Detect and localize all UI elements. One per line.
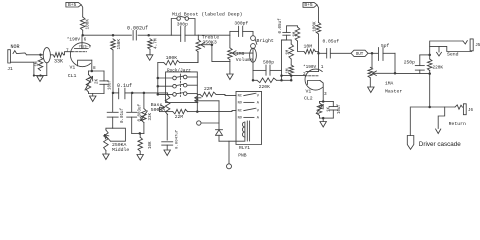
resistor cathode V1a variable xyxy=(88,71,90,75)
wire treble bottom to 100K xyxy=(197,52,199,63)
svg-text:33K: 33K xyxy=(54,58,63,64)
wire to return jack xyxy=(429,74,431,107)
ground middle xyxy=(105,151,107,155)
wire send tip xyxy=(430,41,463,55)
svg-text:PNB: PNB xyxy=(238,153,247,159)
svg-text:RLY1: RLY1 xyxy=(239,145,250,151)
net flag OUT xyxy=(351,50,368,56)
svg-text:22M: 22M xyxy=(175,114,184,120)
rock jazz switch rows xyxy=(158,77,173,79)
svg-text:33K: 33K xyxy=(149,112,153,120)
svg-text:10K: 10K xyxy=(149,141,153,149)
svg-text:J6: J6 xyxy=(468,109,474,113)
svg-text:J5: J5 xyxy=(475,44,480,48)
wire box to 22M lower xyxy=(196,103,198,112)
svg-text:300p: 300p xyxy=(177,22,188,28)
send jack barrel xyxy=(470,39,473,51)
svg-text:8: 8 xyxy=(93,66,96,71)
svg-text:1: 1 xyxy=(321,65,324,70)
wire cathode V2 xyxy=(320,81,323,102)
jack sleeve wire xyxy=(10,62,34,75)
potentiometer Volume 1M6 xyxy=(228,48,233,60)
svg-text:100K: 100K xyxy=(313,21,318,32)
wire flag to 100K xyxy=(81,5,83,17)
svg-text:150K: 150K xyxy=(117,39,122,50)
tube V2 cathode xyxy=(308,81,321,85)
wire rail stub to 300p xyxy=(171,34,180,36)
wire 100K to treble bottom xyxy=(197,52,199,63)
svg-text:1M: 1M xyxy=(287,68,291,74)
svg-text:6: 6 xyxy=(84,37,87,42)
resistor 10K xyxy=(139,133,141,137)
svg-text:J1: J1 xyxy=(7,66,13,72)
wire plate rail stage1 xyxy=(83,34,113,36)
input jack J1 barrel xyxy=(8,50,11,63)
master wiper xyxy=(373,71,377,76)
ground input xyxy=(37,76,43,82)
svg-text:5pf: 5pf xyxy=(381,43,390,49)
tube V1 CL2 envelope xyxy=(305,69,323,90)
svg-text:7: 7 xyxy=(66,48,69,53)
svg-text:10uf: 10uf xyxy=(108,79,113,90)
wire diode to terminal xyxy=(219,141,229,164)
wire treble wiper down xyxy=(211,45,213,62)
relay NO stub pole 2 xyxy=(244,116,254,118)
resistor 33K slope variable xyxy=(143,93,145,109)
mid boost switch riser right xyxy=(189,19,195,36)
relay NO stub pole 1 xyxy=(244,101,254,103)
wire rail to midboost xyxy=(149,34,172,36)
tube V2 grid dashed xyxy=(305,75,307,77)
relay coil bottom wire xyxy=(229,137,245,141)
send ground arrow xyxy=(438,46,440,52)
svg-text:Middle: Middle xyxy=(112,147,129,153)
capacitor mid branch 2 xyxy=(131,93,133,112)
tube V1a cathode xyxy=(78,60,92,66)
svg-text:NC: NC xyxy=(238,95,242,99)
potentiometer Middle 250KA xyxy=(106,128,113,130)
svg-text:0.05uf: 0.05uf xyxy=(278,18,283,34)
capacitor 0.0047uf bass bottom xyxy=(166,115,168,141)
mid boost switch riser left xyxy=(171,19,177,36)
wire 100K to plate node xyxy=(82,30,84,35)
svg-text:2K: 2K xyxy=(95,78,99,84)
svg-text:CL1: CL1 xyxy=(68,73,77,79)
shielded wire ellipse input xyxy=(43,48,50,63)
resistor 4.7M xyxy=(148,39,153,50)
shielded wire ellipse volume xyxy=(252,48,254,53)
svg-text:500p: 500p xyxy=(263,59,274,65)
svg-text:22M: 22M xyxy=(204,86,213,92)
svg-text:NOR: NOR xyxy=(11,44,20,50)
wire plate lead V2 xyxy=(318,53,320,71)
wire plate lead V1a xyxy=(81,35,83,48)
svg-text:10uf: 10uf xyxy=(337,103,342,114)
svg-text:0.002uf: 0.002uf xyxy=(127,25,148,31)
svg-text:Bright: Bright xyxy=(257,38,274,44)
wire rail resume to treble xyxy=(185,34,198,36)
svg-text:7025-9: 7025-9 xyxy=(79,46,91,50)
node plate V1a xyxy=(81,34,84,37)
svg-text:100K: 100K xyxy=(86,19,91,30)
svg-text:1K: 1K xyxy=(328,106,332,112)
ground cathode V1a xyxy=(92,94,94,97)
wire volume bottom xyxy=(229,60,231,62)
wire cathode bottom link xyxy=(89,93,105,95)
svg-text:3: 3 xyxy=(324,92,327,97)
tube V2 plate xyxy=(306,71,319,73)
wire flag2 down xyxy=(317,5,319,23)
svg-text:10M: 10M xyxy=(304,44,313,50)
wire cathode bottom V2 xyxy=(320,117,334,119)
ground bus wire input xyxy=(34,75,47,77)
send jack sleeve xyxy=(430,46,472,51)
svg-text:V1: V1 xyxy=(70,65,76,71)
wire rail treble to volume xyxy=(198,34,230,36)
mid boost switch contacts xyxy=(177,17,181,21)
resistor 1M middle xyxy=(282,39,292,41)
ground return arrow xyxy=(436,129,441,134)
power flag B+5 second stage xyxy=(303,2,317,7)
wire 33K to grid jog xyxy=(64,52,73,55)
relay RLY1 box xyxy=(236,91,262,144)
wire grid rail V2 xyxy=(282,75,306,77)
svg-text:220K: 220K xyxy=(259,84,270,90)
wire input tip xyxy=(27,54,44,56)
tube V1a grid dashed xyxy=(72,51,74,53)
wire through shield to 33K xyxy=(50,54,53,56)
treble wiper xyxy=(201,42,205,47)
svg-text:CL2: CL2 xyxy=(304,96,313,102)
svg-text:Master: Master xyxy=(385,88,402,94)
wire 0.05uf link vertical xyxy=(281,40,283,80)
svg-text:250p: 250p xyxy=(404,60,415,66)
wire 150K to tone rail xyxy=(112,50,114,93)
wire 22M lower to relay xyxy=(197,111,236,112)
wire 100K to plate node V2 xyxy=(318,34,320,53)
ground 4.7M xyxy=(149,49,151,55)
rock jazz mechanical link dashed xyxy=(179,74,181,97)
tube V1a plate xyxy=(75,48,89,50)
resistor 100K plate load V1a xyxy=(80,17,85,30)
svg-text:Return: Return xyxy=(449,121,466,127)
svg-text:B+5: B+5 xyxy=(68,2,77,8)
shield tail wire xyxy=(46,63,48,76)
svg-text:0.01uf: 0.01uf xyxy=(120,107,125,123)
svg-text:1MA: 1MA xyxy=(385,80,394,86)
wire mid join xyxy=(132,132,144,134)
svg-text:Rock/Jazz: Rock/Jazz xyxy=(167,69,191,74)
svg-text:NO: NO xyxy=(238,101,242,105)
svg-text:1M: 1M xyxy=(36,61,40,67)
middle wiper loop xyxy=(111,128,126,141)
svg-text:OUT: OUT xyxy=(356,53,364,57)
jack J1 tip contact xyxy=(13,51,27,55)
wire 1M bottom to wires xyxy=(290,75,292,80)
wire cathode top link xyxy=(89,70,105,72)
wire OUT to master node xyxy=(368,52,372,54)
return jack barrel xyxy=(463,104,466,115)
mid boost switch lever xyxy=(180,16,185,17)
svg-text:0.05uf: 0.05uf xyxy=(323,39,340,45)
terminal circle footswitch xyxy=(197,121,201,125)
svg-text:4.7M: 4.7M xyxy=(153,38,158,49)
bus wire left of rock jazz box xyxy=(157,63,159,95)
resistor 1M lower xyxy=(290,59,292,65)
tube V1 CL1 envelope xyxy=(70,43,90,67)
svg-text:100K: 100K xyxy=(166,55,178,61)
svg-text:0.0047uf: 0.0047uf xyxy=(174,129,179,149)
wire n-link xyxy=(287,26,298,33)
resistor 220K mixer xyxy=(252,79,255,82)
svg-text:2: 2 xyxy=(303,72,306,77)
resistor 220K send xyxy=(428,54,431,57)
ground cathode V2 xyxy=(322,118,324,121)
ground master xyxy=(369,78,371,87)
relay coil xyxy=(246,121,248,141)
svg-text:Send: Send xyxy=(447,51,459,57)
resistor 100K plate load V2 xyxy=(316,22,321,34)
return jack switch contact xyxy=(455,105,463,109)
resistor 150K xyxy=(111,39,116,50)
resistor 1M upper xyxy=(295,27,300,41)
svg-text:NC: NC xyxy=(238,110,242,114)
bass wiper xyxy=(161,105,165,110)
svg-text:300pf: 300pf xyxy=(234,21,248,27)
node input xyxy=(39,54,42,57)
svg-text:Driver cascade: Driver cascade xyxy=(419,141,461,148)
wire tone rail xyxy=(113,92,119,94)
capacitor 0.01uf middle branch xyxy=(112,93,114,112)
wire 5pf to wiper xyxy=(394,53,396,73)
ground volume xyxy=(229,61,231,74)
svg-text:1M: 1M xyxy=(293,31,297,37)
bright switch xyxy=(252,31,254,35)
terminal circle PNB xyxy=(227,164,232,169)
svg-text:1M: 1M xyxy=(287,49,291,55)
svg-text:1M6: 1M6 xyxy=(236,51,245,57)
return jack sleeve xyxy=(438,107,445,129)
node 150K tap xyxy=(112,34,115,37)
svg-text:V1: V1 xyxy=(306,88,312,94)
svg-text:B+5: B+5 xyxy=(304,2,313,8)
wire master to 250p bottom xyxy=(395,73,430,75)
send jack tip contact xyxy=(463,41,467,44)
potentiometer Master 1MA xyxy=(371,53,373,67)
capacitor 10uf cathode V2 xyxy=(332,102,334,107)
svg-text:*190V: *190V xyxy=(67,37,81,42)
net flag driver cascade down xyxy=(409,108,411,136)
node 4.7M tap xyxy=(147,34,150,37)
volume wiper xyxy=(232,51,236,56)
resistor 1M input pulldown xyxy=(38,57,43,71)
wire volume top xyxy=(229,31,231,47)
capacitor 10uf cathode V1a xyxy=(103,71,105,81)
power flag B+5 first stage xyxy=(66,2,81,7)
ground bass xyxy=(164,150,171,156)
footswitch stub arrows xyxy=(195,96,198,100)
diode relay xyxy=(218,101,220,130)
resistor cathode V2 variable xyxy=(320,101,334,103)
svg-text:NO: NO xyxy=(238,116,242,120)
resistor 33K grid stopper xyxy=(53,53,64,58)
wire cathode V1a xyxy=(91,60,93,71)
svg-text:220K: 220K xyxy=(433,66,444,71)
ground 10K xyxy=(139,151,141,154)
